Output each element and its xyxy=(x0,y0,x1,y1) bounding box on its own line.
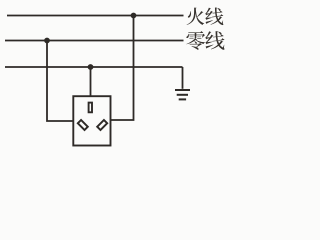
wire earth line to ground symbol xyxy=(182,67,184,89)
junction dot live line / socket branch xyxy=(131,13,137,19)
wire neutral drop from neutral line to socket left pin xyxy=(47,41,73,122)
label 零线 (neutral wire) on neutral line xyxy=(186,31,224,50)
label 火线 (live wire) on live line xyxy=(187,8,224,26)
socket X1 live slot (right, angled) xyxy=(97,120,107,130)
wire live drop from live line to socket right pin xyxy=(111,16,134,121)
wire earth line E xyxy=(5,66,183,68)
wire live line L (火线) xyxy=(7,15,184,17)
junction dot neutral line / socket branch xyxy=(44,38,50,44)
socket X1 neutral slot (left, angled) xyxy=(78,120,88,130)
junction dot earth line / socket branch xyxy=(88,64,94,70)
ground (earth) symbol xyxy=(175,90,190,99)
socket X1 earth slot (top) xyxy=(89,103,92,113)
socket outlet X1 body xyxy=(73,96,110,145)
wire neutral line N (零线) xyxy=(5,40,184,42)
wire earth drop from earth line to socket top pin xyxy=(90,67,92,96)
